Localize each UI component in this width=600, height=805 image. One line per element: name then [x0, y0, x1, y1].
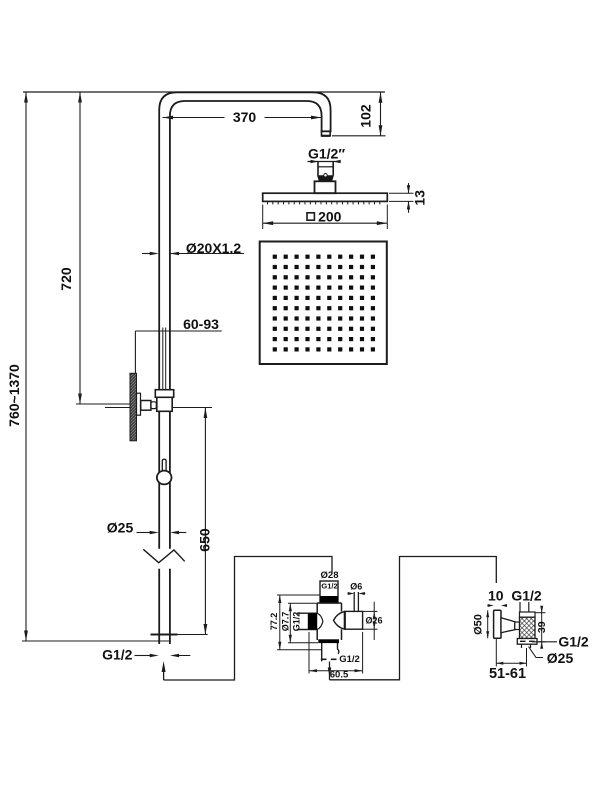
svg-text:G1/2: G1/2	[511, 588, 542, 604]
svg-text:Ø28: Ø28	[321, 570, 339, 581]
svg-text:60-93: 60-93	[183, 316, 219, 332]
svg-text:G1/2″: G1/2″	[308, 146, 345, 162]
svg-text:60.5: 60.5	[330, 669, 349, 680]
svg-text:G1/2: G1/2	[291, 612, 301, 632]
svg-text:10: 10	[488, 588, 504, 604]
svg-text:G1/2: G1/2	[102, 646, 133, 662]
svg-text:13: 13	[412, 190, 428, 206]
svg-text:200: 200	[318, 209, 342, 225]
svg-text:720: 720	[58, 267, 74, 291]
svg-text:Ø20X1.2: Ø20X1.2	[186, 240, 241, 256]
svg-text:Ø7.7: Ø7.7	[281, 612, 291, 632]
svg-text:77.2: 77.2	[269, 613, 279, 631]
svg-text:G1/2: G1/2	[339, 654, 360, 665]
svg-text:51-61: 51-61	[489, 666, 526, 682]
svg-text:39: 39	[536, 621, 548, 633]
svg-text:102: 102	[358, 104, 374, 128]
svg-text:G1/2: G1/2	[558, 633, 589, 649]
svg-text:370: 370	[233, 109, 257, 125]
svg-text:760~1370: 760~1370	[6, 364, 22, 427]
svg-text:Ø25: Ø25	[107, 519, 134, 535]
svg-text:650: 650	[197, 528, 213, 552]
svg-text:G1/2: G1/2	[321, 581, 337, 590]
svg-text:Ø25: Ø25	[547, 650, 574, 666]
svg-text:Ø6: Ø6	[350, 581, 362, 591]
svg-text:Ø50: Ø50	[472, 614, 484, 635]
